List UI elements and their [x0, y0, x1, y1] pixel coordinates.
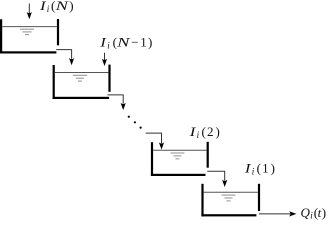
svg-text:1: 1 — [262, 161, 269, 176]
svg-text:−: − — [131, 35, 138, 50]
tank 1 left wall — [201, 184, 203, 217]
svg-text:N: N — [54, 0, 70, 13]
inflow arrow I_i(N) into tank N — [27, 4, 32, 20]
ellipsis dots (continuation) — [128, 116, 142, 129]
svg-text:): ) — [271, 161, 275, 176]
tank 2 bottom — [151, 174, 206, 176]
tank N-1 bottom — [53, 97, 110, 99]
svg-text:N: N — [116, 35, 132, 50]
svg-text:): ) — [148, 35, 152, 50]
tank 2 water line — [153, 149, 207, 151]
tank N-1 left wall — [53, 65, 55, 99]
tank N water line — [2, 26, 57, 28]
outlet pipe tank N to tank N-1 — [56, 50, 74, 66]
svg-text:I: I — [39, 0, 47, 13]
label I_i(2) — [189, 124, 220, 140]
tank 1 water-surface symbol — [222, 195, 236, 201]
svg-text:(: ( — [202, 124, 206, 139]
tank N left wall — [0, 19, 2, 53]
tank 1 water line — [204, 191, 258, 193]
label Q_i(t) — [301, 205, 327, 221]
svg-text:I: I — [244, 161, 252, 176]
svg-text:(: ( — [257, 161, 261, 176]
tank 2 right wall — [207, 142, 209, 168]
inlet pipe into tank 2 — [146, 133, 164, 150]
tank 2 left wall — [151, 142, 153, 176]
outflow arrow Q_i(t) — [259, 211, 296, 216]
svg-text:I: I — [189, 124, 197, 139]
tank 1 right wall — [258, 184, 260, 211]
outlet pipe tank 2 to tank 1 — [207, 171, 227, 187]
svg-text:I: I — [99, 35, 107, 50]
outlet pipe tank N-1 downward — [108, 95, 126, 110]
tank 2 water-surface symbol — [170, 153, 184, 159]
tank N-1 water-surface symbol — [73, 75, 87, 81]
svg-text:): ) — [322, 205, 326, 220]
svg-text:): ) — [69, 0, 73, 13]
tank N-1 water line — [55, 72, 109, 74]
label I_i(N) — [39, 0, 74, 14]
inflow arrow I_i(N-1) into tank N-1 — [102, 53, 107, 66]
tank N right wall — [57, 19, 59, 45]
tank N-1 right wall — [108, 65, 110, 92]
label I_i(1) — [244, 161, 275, 177]
svg-text:): ) — [216, 124, 220, 139]
tank N bottom — [0, 51, 56, 53]
svg-text:Q: Q — [301, 205, 311, 220]
label I_i(N-1) — [99, 35, 152, 51]
svg-text:2: 2 — [207, 124, 214, 139]
tank 1 bottom — [201, 214, 256, 216]
tank N water-surface symbol — [20, 29, 34, 34]
svg-text:1: 1 — [140, 35, 147, 50]
